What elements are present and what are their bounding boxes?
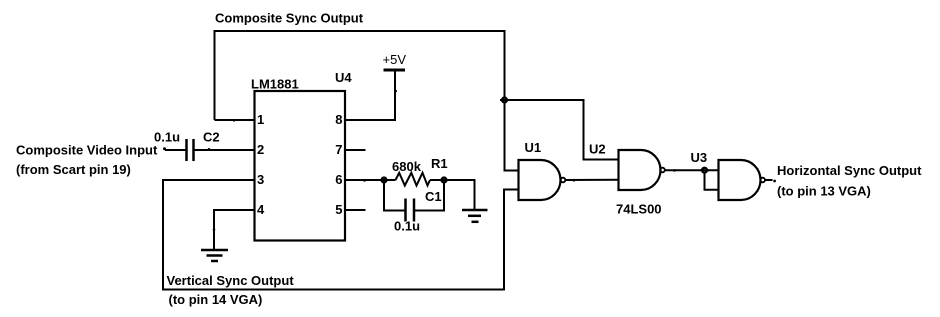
svg-text:(to pin 14 VGA): (to pin 14 VGA)	[169, 292, 263, 307]
transistor U2 nand body	[619, 150, 661, 190]
node terminal input	[163, 147, 166, 150]
wire pin6	[345, 179, 396, 181]
node U1 bubble	[561, 178, 566, 183]
wire R1 right to ground	[430, 180, 475, 210]
svg-text:Vertical Sync Output: Vertical Sync Output	[167, 273, 295, 288]
node marker pin1	[233, 119, 236, 122]
node U2 bubble	[660, 168, 665, 173]
svg-text:+5V: +5V	[383, 52, 407, 67]
svg-text:U3: U3	[691, 150, 708, 165]
ground pin4	[201, 250, 228, 261]
svg-text:(from Scart pin 19): (from Scart pin 19)	[16, 162, 131, 177]
node marker pin6	[363, 179, 366, 182]
wire node to U2 input	[505, 100, 619, 160]
wire C1 right branch	[414, 180, 444, 211]
node junction R1 left	[380, 178, 389, 183]
svg-text:Composite Sync Output: Composite Sync Output	[215, 10, 364, 25]
node terminal hsync	[773, 180, 776, 183]
wire composite sync: pin1 rail top	[215, 31, 519, 171]
node marker 5v	[394, 90, 397, 93]
wire pin8 to +5V	[345, 70, 395, 120]
transistor U1 nand body	[519, 160, 561, 200]
svg-text:U1: U1	[525, 140, 542, 155]
svg-text:74LS00: 74LS00	[616, 202, 662, 217]
wire U3 out	[765, 179, 773, 181]
svg-text:LM1881: LM1881	[251, 77, 299, 92]
svg-text:Composite Video Input: Composite Video Input	[16, 142, 158, 157]
wire pin5 stub	[345, 209, 366, 211]
node junction U3	[700, 168, 709, 173]
wire U2 out to U3 in	[665, 169, 719, 171]
node junction R1 right	[440, 178, 449, 183]
svg-text:Horizontal Sync Output: Horizontal Sync Output	[777, 163, 922, 178]
svg-text:4: 4	[257, 202, 265, 217]
svg-text:U2: U2	[589, 142, 606, 157]
wire pin3 vertical sync loop	[163, 180, 519, 290]
wire C1 left branch	[384, 180, 406, 211]
svg-text:8: 8	[335, 112, 342, 127]
ground R1	[462, 210, 488, 222]
node junction csync	[500, 98, 509, 103]
svg-text:0.1u: 0.1u	[394, 219, 420, 234]
svg-text:0.1u: 0.1u	[154, 130, 180, 145]
svg-text:5: 5	[335, 202, 342, 217]
svg-text:C2: C2	[203, 130, 220, 145]
svg-text:1: 1	[257, 112, 264, 127]
svg-text:C1: C1	[425, 189, 442, 204]
capacitor C2	[187, 139, 194, 161]
node marker pin4	[213, 228, 216, 231]
node U3 bubble	[760, 178, 765, 183]
svg-text:(to pin 13 VGA): (to pin 13 VGA)	[777, 184, 871, 199]
wire C2 to pin2	[194, 149, 255, 151]
svg-text:680k: 680k	[392, 159, 422, 174]
svg-text:R1: R1	[431, 156, 448, 171]
op-amp U4 LM1881 body	[255, 91, 346, 241]
svg-text:U4: U4	[335, 70, 352, 85]
wire pin1 to rail	[215, 119, 255, 121]
svg-text:2: 2	[257, 142, 264, 157]
node marker pin2	[208, 148, 211, 151]
wire pin7 stub	[345, 149, 366, 151]
svg-text:6: 6	[335, 172, 342, 187]
transistor U3 nand body	[719, 160, 761, 200]
wire U3 input tie	[705, 170, 719, 190]
svg-text:3: 3	[257, 172, 264, 187]
node marker U1 out	[573, 179, 576, 182]
wire video input	[165, 149, 187, 151]
resistor R1	[396, 173, 431, 186]
node marker U2 out	[673, 169, 676, 172]
svg-text:7: 7	[335, 142, 342, 157]
wire pin4 to ground	[214, 210, 255, 250]
power +5V bar	[384, 69, 406, 72]
wire U1 out to U2 in	[565, 179, 618, 181]
capacitor C1	[406, 199, 415, 222]
